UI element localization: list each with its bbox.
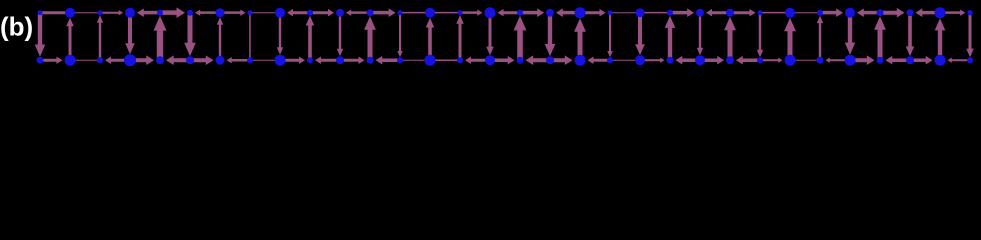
bottom node B9 [307, 57, 313, 63]
bottom node B8 [275, 55, 286, 66]
bottom bond arrow c21 [676, 56, 701, 65]
rung arrow R10 (down) [337, 13, 343, 57]
rung arrow R25 (up) [784, 18, 796, 61]
bottom bond arrow c26 [826, 58, 851, 63]
rung arrow R26 (up) [817, 16, 823, 61]
rung arrow R31 (down) [966, 13, 974, 58]
bottom bond arrow c24 [760, 58, 783, 63]
rung arrow R21 (up) [665, 16, 676, 61]
rung arrow R6 (up) [217, 17, 223, 60]
rung arrow R0 (down) [35, 13, 46, 57]
bottom bond arrow c10 [340, 57, 365, 65]
bottom bond arrow c30 [948, 58, 971, 63]
top node T21 [667, 10, 673, 16]
bottom bond arrow c1 [72, 60, 98, 61]
bottom node B7 [247, 57, 253, 63]
rung arrow R23 (up) [724, 17, 736, 61]
bottom node B4 [156, 56, 164, 64]
bottom node B20 [635, 55, 645, 65]
bottom node B1 [65, 55, 76, 66]
bottom bond arrow c13 [432, 60, 458, 62]
bottom node B5 [186, 56, 194, 64]
bottom bond arrow c0 [40, 57, 63, 65]
bottom bond arrow c7 [252, 60, 278, 61]
top node T9 [307, 10, 313, 16]
top node T12 [398, 10, 403, 15]
top node T17 [546, 9, 554, 17]
rung arrow R24 (down) [757, 13, 763, 58]
top bond arrow b10 [346, 10, 370, 16]
bottom bond arrow c15 [490, 56, 515, 65]
rung arrow R11 (up) [364, 16, 376, 60]
top bond arrow b5 [195, 10, 220, 16]
bottom node B27 [845, 55, 856, 66]
bottom bond arrow c17 [550, 55, 573, 65]
top bond arrow b1 [72, 12, 98, 13]
top bond arrow b16 [520, 8, 544, 17]
svg-text:(b): (b) [0, 12, 33, 42]
top bond arrow b25 [792, 12, 818, 13]
bottom bond arrow c9 [315, 57, 340, 65]
bottom bond arrow c20 [640, 58, 665, 63]
bottom bond arrow c25 [792, 60, 818, 61]
top node T22 [696, 9, 704, 17]
top node T7 [248, 10, 253, 15]
bottom bond arrow c27 [850, 55, 875, 65]
bottom bond arrow c12 [402, 60, 428, 61]
top bond arrow b24 [762, 12, 788, 14]
top bond arrow b13 [432, 12, 458, 14]
rung arrow R14 (up) [456, 15, 464, 60]
top node T20 [636, 8, 645, 17]
rung arrow R22 (down) [697, 13, 703, 56]
rung arrow R7 (down) [249, 13, 251, 61]
top node T2 [98, 10, 103, 15]
bottom node B0 [37, 57, 44, 64]
top node T25 [785, 8, 795, 18]
top node T15 [485, 7, 496, 18]
top bond arrow b4 [160, 7, 185, 18]
top node T23 [726, 9, 734, 17]
bottom node B16 [517, 57, 524, 64]
bottom node B25 [785, 55, 796, 66]
top node T3 [125, 8, 135, 18]
bottom node B22 [695, 55, 705, 65]
rung arrow R13 (up) [426, 18, 435, 61]
bottom node B21 [667, 57, 674, 64]
bottom bond arrow c2 [105, 57, 130, 65]
rung arrow R19 (down) [607, 13, 612, 58]
top node T14 [458, 10, 463, 15]
top node T8 [275, 8, 285, 18]
rung arrow R8 (down) [277, 13, 283, 55]
bottom bond arrow c3 [130, 55, 154, 65]
top bond arrow b7 [252, 12, 278, 13]
top node T26 [817, 10, 823, 16]
top bond arrow b22 [706, 9, 730, 17]
rung arrow R18 (up) [574, 18, 586, 60]
bottom bond arrow c22 [700, 56, 724, 65]
rung arrow R12 (down) [397, 13, 402, 58]
bottom node B19 [607, 57, 613, 63]
top node T30 [935, 7, 946, 18]
bottom bond arrow c19 [612, 60, 638, 61]
top bond arrow b11 [370, 8, 396, 17]
rung arrow R20 (down) [635, 13, 645, 56]
rung arrow R17 (down) [545, 13, 556, 57]
bottom bond arrow c23 [736, 56, 760, 65]
bottom bond arrow c29 [910, 56, 933, 65]
top bond arrow b26 [820, 8, 843, 17]
top bond arrow b17 [556, 8, 580, 17]
bottom node B11 [367, 57, 374, 64]
top bond arrow b20 [642, 12, 668, 14]
rung arrow R15 (down) [486, 13, 494, 56]
bottom node B12 [397, 57, 403, 63]
bottom bond arrow c11 [376, 56, 401, 65]
top bond arrow b15 [498, 9, 521, 17]
top bond arrow b12 [402, 12, 428, 14]
top bond arrow b14 [460, 10, 483, 16]
top bond arrow b30 [940, 10, 965, 16]
rung arrow R30 (up) [935, 18, 946, 60]
top bond arrow b8 [287, 9, 310, 17]
bottom node B15 [485, 55, 495, 65]
bottom bond arrow c18 [588, 57, 611, 65]
bottom node B18 [575, 55, 586, 66]
rung arrow R9 (up) [306, 16, 315, 61]
bottom node B31 [967, 57, 973, 63]
rung arrow R2 (up) [97, 15, 103, 60]
bottom bond arrow c28 [886, 56, 911, 65]
top node T29 [907, 9, 914, 16]
rung arrow R27 (down) [845, 13, 856, 55]
rung arrow R28 (up) [874, 16, 886, 60]
rung arrow R1 (up) [66, 18, 74, 61]
rung arrow R4 (up) [154, 16, 167, 61]
bottom node B29 [906, 56, 914, 64]
rung arrow R29 (down) [906, 13, 915, 57]
rung arrow R16 (up) [514, 16, 527, 61]
top node T24 [758, 10, 763, 15]
bottom node B2 [97, 57, 103, 63]
top node T28 [877, 9, 884, 16]
top node T5 [187, 10, 193, 16]
top bond arrow b29 [916, 8, 941, 17]
bottom node B3 [124, 54, 136, 66]
top node T13 [425, 8, 435, 18]
bottom bond arrow c4 [166, 55, 190, 65]
bottom bond arrow c16 [526, 55, 551, 65]
bottom node B24 [757, 57, 763, 63]
bottom bond arrow c8 [280, 57, 305, 65]
top bond arrow b28 [880, 8, 905, 18]
top node T0 [38, 10, 43, 15]
top node T31 [967, 10, 972, 15]
top bond arrow b2 [100, 10, 123, 15]
top node T18 [575, 7, 586, 18]
top node T11 [367, 9, 374, 16]
bottom node B13 [425, 55, 436, 66]
bottom node B14 [457, 57, 463, 63]
top bond arrow b6 [220, 10, 246, 16]
top node T27 [845, 8, 855, 18]
top bond arrow b9 [310, 9, 334, 17]
top bond arrow b18 [580, 9, 606, 17]
bottom node B23 [726, 56, 734, 64]
rung arrow R5 (down) [184, 13, 196, 57]
top bond arrow b27 [857, 8, 880, 17]
bottom node B26 [817, 57, 824, 64]
bottom node B17 [546, 56, 554, 64]
top node T6 [216, 8, 225, 17]
top node T10 [336, 9, 344, 17]
top bond arrow b3 [137, 8, 160, 17]
top bond arrow b21 [670, 8, 694, 17]
top bond arrow b0 [42, 11, 67, 14]
top node T19 [608, 10, 613, 15]
top node T1 [65, 8, 75, 18]
bottom bond arrow c14 [465, 57, 490, 65]
bottom node B10 [336, 56, 344, 64]
bottom node B6 [216, 56, 225, 65]
bottom node B30 [935, 55, 946, 66]
top bond arrow b19 [612, 12, 638, 13]
bottom bond arrow c6 [227, 57, 251, 63]
top node T16 [517, 10, 523, 16]
bottom bond arrow c5 [190, 55, 214, 65]
top node T4 [157, 10, 163, 16]
bottom node B28 [877, 57, 884, 64]
rung arrow R3 (down) [125, 13, 135, 55]
top bond arrow b23 [730, 9, 756, 17]
